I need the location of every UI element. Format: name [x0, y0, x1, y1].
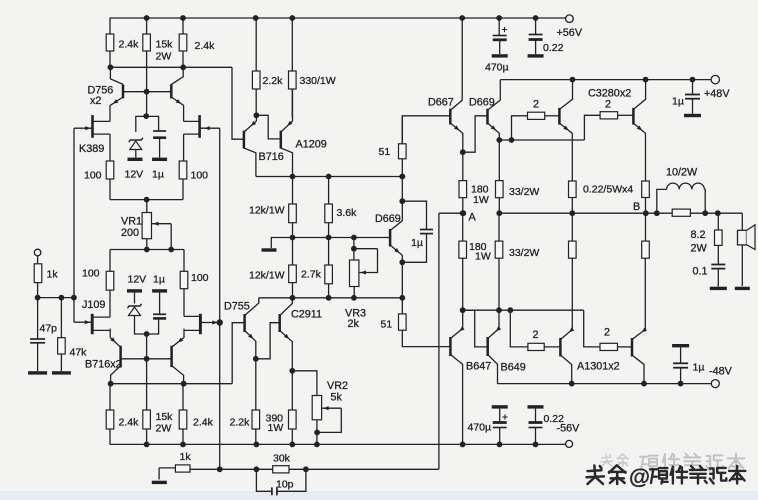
svg-text:+48V: +48V	[704, 88, 730, 100]
wire B716 emitter to A1209 base	[256, 115, 280, 139]
capacitor 1u miller	[402, 201, 426, 229]
speaker	[741, 213, 743, 230]
svg-text:1k: 1k	[180, 451, 192, 463]
ground bar for lower 12V zener	[127, 289, 142, 292]
svg-text:D755: D755	[224, 301, 250, 313]
wire D756 collector rail y=67	[110, 66, 233, 68]
resistor 100 upper-left	[109, 161, 111, 200]
transistor A1301 #2	[631, 338, 634, 357]
terminal input	[34, 249, 41, 256]
svg-text:@: @	[629, 465, 650, 489]
resistor 2.4k top-left leads	[109, 18, 111, 67]
svg-text:2.2k: 2.2k	[263, 75, 284, 87]
potentiometer VR2 5k	[292, 371, 317, 396]
svg-text:2.2k: 2.2k	[230, 417, 251, 429]
resistor 2.2k upper (B716 emitter load)	[255, 18, 257, 71]
watermark ghost 硬件笔记本	[640, 456, 658, 471]
capacitor 0.22 (-56 bypass)	[528, 405, 544, 408]
wire to A1301 #1 base resistor	[510, 310, 528, 347]
capacitor 1u (upper bias)	[153, 130, 166, 132]
gate wire J109 left	[74, 321, 92, 323]
wire zener/cap top block junction	[143, 113, 149, 119]
feedback line vertical (right gates)	[219, 128, 221, 469]
svg-text:15k: 15k	[156, 39, 174, 51]
svg-text:B649: B649	[501, 362, 526, 374]
resistor 0.22/5Wx4 #2 (top emitter)	[642, 181, 650, 198]
zobel capacitor 0.1	[717, 245, 719, 264]
transistor C3280 #2	[632, 108, 635, 125]
watermark bold 头条	[587, 466, 604, 485]
svg-text:1µ: 1µ	[693, 362, 705, 374]
svg-text:A1209: A1209	[296, 139, 327, 151]
resistor 3.6k	[328, 177, 330, 205]
svg-text:0.1: 0.1	[693, 266, 708, 278]
wire K389 source rail	[110, 199, 183, 201]
svg-text:B647: B647	[466, 361, 491, 373]
resistor 33/2W lower	[495, 241, 503, 258]
svg-text:30k: 30k	[273, 453, 291, 465]
svg-text:1µ: 1µ	[153, 274, 165, 286]
resistor 2.4k top-3rd body	[179, 34, 187, 51]
wire B647 emitter to B649 base	[463, 310, 488, 347]
transistor B716 left of lower pair	[119, 346, 122, 367]
transistor B649 predriver lower	[486, 337, 489, 356]
svg-text:1W: 1W	[475, 251, 491, 263]
svg-text:2: 2	[533, 99, 539, 111]
svg-text:100: 100	[191, 170, 209, 182]
svg-text:100: 100	[191, 272, 209, 284]
transistor A1301 #1	[559, 338, 562, 357]
svg-text:5k: 5k	[331, 392, 343, 404]
svg-text:D667: D667	[428, 97, 454, 109]
svg-text:2.7k: 2.7k	[301, 269, 322, 281]
svg-text:33/2W: 33/2W	[509, 247, 539, 259]
svg-text:33/2W: 33/2W	[509, 186, 539, 198]
svg-text:470µ: 470µ	[468, 422, 492, 434]
svg-text:B: B	[633, 201, 640, 213]
svg-text:2.4k: 2.4k	[119, 417, 140, 429]
capacitor 470u (-56 bypass)	[492, 405, 508, 408]
svg-text:1µ: 1µ	[411, 237, 423, 249]
wire to second output base resistor	[584, 115, 600, 140]
resistor 15k 2W top body	[143, 34, 151, 51]
svg-text:1µ: 1µ	[152, 169, 164, 181]
svg-text:51: 51	[379, 146, 391, 158]
svg-text:10/2W: 10/2W	[666, 167, 698, 179]
resistor 180 1W upper	[462, 152, 464, 180]
resistor 0.22/5Wx4 #1 (top emitter)	[569, 181, 577, 198]
jfet J109 right half	[199, 314, 202, 334]
resistor 2 (C3280 #2 base)	[600, 112, 618, 119]
wire +56V top supply rail	[110, 17, 566, 19]
jfet K389 right half	[198, 115, 201, 138]
watermark ghost 头条	[601, 454, 612, 466]
wire driver bias rail lower y=310.2	[463, 309, 584, 311]
svg-text:-48V: -48V	[709, 366, 733, 378]
resistor 2 (A1301 #2 base)	[600, 343, 618, 350]
resistor 100 lower-left	[106, 271, 114, 290]
svg-text:K389: K389	[79, 143, 104, 155]
wire feedback to node A	[438, 213, 440, 469]
ground bar for 1u cap	[152, 158, 167, 161]
svg-text:47p: 47p	[40, 323, 58, 335]
transistor B647 predriver lower	[449, 337, 452, 356]
capacitor 1u (lower bias)	[153, 313, 166, 315]
transistor B716 right of lower pair	[170, 346, 173, 367]
input line vertical (left gates)	[73, 128, 75, 322]
transistor D756 right of pair	[170, 84, 173, 98]
wire B716 pair bases	[121, 358, 172, 360]
wire VAS collector column	[401, 116, 403, 201]
svg-text:100: 100	[84, 170, 102, 182]
svg-text:0.22/5Wx4: 0.22/5Wx4	[583, 184, 633, 196]
svg-text:8.2: 8.2	[691, 229, 706, 241]
svg-text:2k: 2k	[348, 318, 360, 330]
resistor 2.4k top-left body	[106, 34, 114, 51]
resistor damping on output rail	[672, 209, 690, 216]
resistor 390 1W	[291, 371, 293, 410]
transistor D669 predriver	[486, 109, 489, 125]
svg-text:J109: J109	[82, 299, 105, 311]
resistor 100 lower-right	[180, 271, 188, 288]
svg-text:12k/1W: 12k/1W	[249, 270, 285, 282]
svg-text:2: 2	[605, 99, 611, 111]
svg-text:A1301x2: A1301x2	[577, 361, 620, 373]
svg-text:x2: x2	[90, 95, 101, 107]
ground stub of 12k divider	[271, 238, 292, 249]
resistor 2.4k top-3rd leads	[182, 18, 184, 67]
capacitor 47p input	[37, 298, 39, 339]
potentiometer VR1 200	[146, 200, 148, 213]
svg-text:B716: B716	[259, 151, 284, 163]
svg-text:470µ: 470µ	[485, 62, 509, 74]
zobel resistor 8.2 2W	[717, 213, 719, 230]
svg-text:2W: 2W	[156, 51, 172, 63]
wire zener/cap lower block junction	[135, 316, 159, 334]
svg-text:C2911: C2911	[291, 309, 322, 321]
resistor 100 upper-right	[182, 161, 184, 200]
resistor 2 (A1301 #1 base)	[528, 343, 544, 350]
svg-text:2: 2	[533, 329, 539, 341]
resistor 30k feedback	[273, 466, 289, 473]
resistor 1k input series	[37, 256, 39, 298]
resistor 12k/1W lower	[292, 238, 294, 266]
wire VR1 bottom rail	[146, 239, 148, 250]
svg-text:VR1: VR1	[121, 216, 142, 228]
resistor 0.22/5Wx4 #3 (bottom emitter)	[569, 241, 577, 258]
gate wire K389 left	[74, 127, 93, 129]
svg-text:2: 2	[604, 327, 610, 339]
transistor A1209 (2nd stage)	[280, 131, 283, 149]
svg-text:47k: 47k	[70, 347, 88, 359]
svg-text:2.4k: 2.4k	[195, 40, 216, 52]
svg-text:2W: 2W	[691, 243, 708, 255]
svg-text:3.6k: 3.6k	[337, 207, 358, 219]
svg-text:2W: 2W	[156, 423, 172, 435]
svg-text:VR2: VR2	[327, 380, 348, 392]
wire D755 emitter to C2911 base	[256, 323, 280, 359]
terminal -48V	[711, 380, 719, 388]
transistor D756 left of pair	[122, 84, 125, 98]
svg-text:+56V: +56V	[557, 27, 583, 39]
resistor 330/1W (A1209 emitter load)	[291, 18, 293, 71]
wire VAS emitter rail y=297.8	[259, 297, 403, 299]
svg-text:10p: 10p	[276, 479, 294, 491]
junction dots on +56V rail	[144, 15, 150, 21]
wire from rail y67 down to B716 base	[232, 67, 244, 139]
resistor 0.22/5Wx4 #4 (bottom emitter)	[642, 241, 650, 258]
jfet K389 left half	[91, 115, 94, 138]
inductor 10/2W with damping resistor	[657, 189, 667, 213]
wire to first output base resistor	[512, 116, 528, 140]
svg-text:C3280x2: C3280x2	[588, 88, 631, 100]
ground bar for lower 1u cap	[152, 289, 167, 292]
wire -48V rail	[498, 383, 712, 385]
svg-text:2.4k: 2.4k	[119, 39, 140, 51]
svg-text:12k/1W: 12k/1W	[249, 205, 285, 217]
terminal -56V	[566, 440, 573, 447]
wire 2nd stage collector rail y=176.5	[256, 176, 402, 178]
transistor C2911	[278, 314, 281, 332]
svg-text:A: A	[469, 212, 477, 224]
gate wire J109 right	[200, 322, 219, 324]
wire feedback line y=469.3	[190, 468, 439, 470]
svg-text:2.4k: 2.4k	[193, 417, 214, 429]
watermark bold 硬件笔记本	[650, 468, 668, 483]
resistor 47k input shunt	[60, 298, 62, 338]
resistor 51 upper	[399, 144, 407, 159]
wire input node rail	[38, 297, 74, 299]
wire +48V rail	[500, 79, 711, 81]
wire VAS base / bias rail y=237.5	[290, 235, 296, 241]
wire node A rail	[439, 212, 463, 214]
svg-text:330/1W: 330/1W	[300, 75, 336, 87]
svg-text:1k: 1k	[47, 269, 59, 281]
wire D756 bases	[123, 91, 171, 93]
capacitor 0.22 (+56 bypass)	[535, 18, 537, 35]
wire to B647 base	[402, 330, 450, 346]
resistor 33/2W upper	[496, 181, 504, 198]
wire B716 collector rail y=383.7	[110, 383, 232, 385]
resistor 180 1W lower	[462, 213, 464, 310]
resistor 15k 2W lead from +56 rail to D756 bases	[146, 18, 148, 92]
capacitor 470u (+56 bypass)	[498, 18, 500, 36]
svg-text:1W: 1W	[473, 194, 489, 206]
svg-text:D669: D669	[375, 213, 401, 225]
jfet J109 left half	[91, 314, 94, 334]
resistor 2.2k lower	[255, 359, 257, 410]
wire -56V bottom rail	[110, 443, 566, 445]
transistor C3280 #1	[558, 108, 561, 125]
capacitor 1u (+48 bypass)	[692, 80, 694, 95]
resistor 2.4k bottom-3rd	[182, 384, 184, 445]
resistor 2 (C3280 #1 base)	[528, 112, 545, 119]
resistor 2.7k	[328, 238, 330, 266]
wire driver bias rail y=140	[499, 139, 584, 141]
gate wire K389 right	[200, 127, 220, 129]
ground bar for 12V zener	[128, 158, 143, 161]
resistor 51 lower	[401, 298, 403, 314]
capacitor 10p feedback	[256, 469, 272, 491]
terminal +48V	[711, 75, 719, 83]
svg-text:100: 100	[82, 268, 100, 280]
resistor 12k/1W upper	[292, 177, 294, 205]
wire to D667 base	[402, 116, 450, 144]
svg-text:0.22: 0.22	[544, 413, 565, 425]
transistor D669 VAS / bias	[389, 229, 392, 247]
svg-text:D669: D669	[469, 97, 495, 109]
svg-text:1µ: 1µ	[672, 96, 684, 108]
resistor 15k 2W bottom	[146, 359, 148, 445]
wire output node B rail	[499, 212, 742, 214]
terminal +56V	[566, 15, 574, 23]
svg-text:12V: 12V	[125, 169, 144, 181]
resistor 2.4k bottom-left	[109, 384, 111, 445]
svg-text:0.22: 0.22	[543, 42, 564, 54]
capacitor 1u (-48 bypass)	[672, 344, 689, 347]
transistor D667 predriver	[449, 109, 452, 125]
zener diode 12V (upper)	[129, 138, 143, 142]
wire D667 emitter to D669 base	[463, 116, 488, 152]
wire to A1301 #2 base resistor	[584, 310, 600, 347]
svg-text:1W: 1W	[268, 422, 284, 434]
svg-text:B716x2: B716x2	[85, 359, 122, 371]
svg-text:51: 51	[381, 319, 393, 331]
svg-text:200: 200	[121, 227, 139, 239]
svg-text:12V: 12V	[128, 274, 147, 286]
wire rail up to D755 base	[232, 323, 244, 384]
potentiometer VR3 2k	[353, 238, 355, 261]
transistor B716 (2nd stage)	[243, 131, 246, 149]
transistor D755 (2nd stage lower)	[243, 314, 246, 332]
zener diode 12V (lower)	[128, 304, 142, 308]
resistor 1k feedback shunt	[159, 467, 175, 469]
svg-text:15k: 15k	[156, 411, 174, 423]
